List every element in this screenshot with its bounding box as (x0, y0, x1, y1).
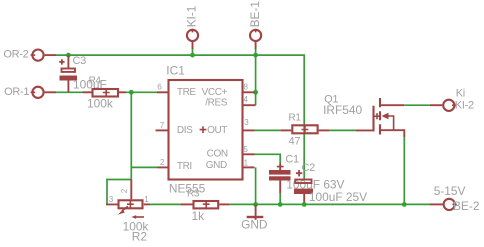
svg-text:R2: R2 (132, 229, 148, 243)
node junction KI-1/top rail (190, 53, 195, 58)
svg-text:IRF540: IRF540 (323, 103, 362, 117)
svg-text:5: 5 (243, 145, 248, 154)
wire Q1 drain to KI-2 (404, 104, 430, 106)
svg-text:R4: R4 (89, 76, 102, 87)
svg-text:3: 3 (244, 118, 249, 127)
wire pin3 to R1 (255, 129, 281, 131)
svg-text:100uF 25V: 100uF 25V (309, 190, 367, 204)
pin 4 /RES stub (243, 104, 256, 106)
svg-text:KI-1: KI-1 (184, 5, 198, 27)
svg-text:R3: R3 (187, 189, 200, 200)
wire pin1 to ground rail (255, 167, 257, 204)
svg-text:DIS: DIS (177, 125, 193, 136)
resistor R4 (83, 89, 127, 97)
node junction C2/rail (302, 202, 307, 207)
svg-text:OR-2: OR-2 (3, 49, 28, 61)
svg-text:OUT: OUT (207, 125, 227, 136)
svg-text:C2: C2 (302, 162, 316, 174)
pad KI-1 (187, 29, 198, 49)
wire top rail net from OR-2 to corner above C2 (56, 55, 304, 178)
svg-text:IC1: IC1 (166, 64, 185, 78)
svg-text:GND: GND (241, 217, 268, 231)
node junction BE-1/top rail (253, 53, 258, 58)
capacitor C2 (294, 170, 313, 204)
svg-text:OR-1: OR-1 (4, 86, 29, 98)
node junction Q1 source/rail (402, 202, 407, 207)
svg-text:BE-1: BE-1 (248, 1, 262, 28)
svg-text:1: 1 (244, 159, 249, 168)
svg-text:KI-2: KI-2 (455, 100, 474, 112)
svg-text:/RES: /RES (205, 97, 227, 108)
wire pin5 to C1 (255, 154, 281, 164)
node junction GND/pin1 (253, 202, 258, 207)
svg-text:Ki: Ki (456, 88, 465, 100)
svg-text:TRE: TRE (177, 87, 197, 98)
wire BE-1 drop to VCC pins (255, 49, 257, 105)
svg-text:4: 4 (244, 95, 249, 104)
pad KI-2 (430, 100, 457, 111)
svg-text:8: 8 (244, 82, 249, 91)
svg-text:3: 3 (109, 195, 114, 204)
wire ground rail (230, 203, 430, 205)
wire Q1 source to ground rail (403, 137, 405, 204)
svg-text:GND: GND (206, 160, 227, 171)
wire C1 to ground rail (279, 193, 281, 204)
svg-text:2: 2 (160, 158, 165, 167)
pad OR-1 (31, 87, 56, 98)
pin 1 GND stub (243, 166, 255, 168)
node junction pin8/VCC (253, 90, 258, 95)
svg-text:1: 1 (144, 195, 149, 204)
pin 6 TRE stub (157, 91, 169, 93)
capacitor C3 (59, 55, 77, 92)
pin 7 DIS stub (156, 129, 169, 131)
trimmer resistor R2 (107, 180, 150, 219)
svg-text:C3: C3 (73, 55, 87, 67)
pad BE-1 (250, 29, 261, 49)
resistor R1 (280, 125, 329, 133)
svg-text:47: 47 (289, 136, 301, 148)
svg-text:7: 7 (160, 121, 165, 130)
node junction C3/top rail (66, 53, 71, 58)
ground symbol (247, 204, 264, 219)
node junction R4/pin6/TRI net (129, 90, 134, 95)
op-amp/IC U1 IC1 NE555 box (169, 80, 243, 180)
svg-text:6: 6 (157, 83, 162, 92)
svg-text:CON: CON (207, 149, 228, 160)
transistor Q2 Q1 IRF540 MOSFET (356, 98, 404, 137)
wire R4 to pin6 (126, 91, 157, 93)
pin 5 CON stub (243, 153, 255, 155)
pad BE-2 (430, 199, 457, 210)
pad OR-2 (31, 50, 56, 61)
wire KI-1 drop (192, 49, 194, 55)
wire TRI net vertical and staircase to R2 (107, 92, 157, 203)
pin 2 TRI stub (157, 166, 169, 168)
wire R2 to R3 (150, 203, 180, 205)
svg-text:TRI: TRI (177, 161, 192, 172)
svg-text:2: 2 (120, 188, 129, 193)
svg-text:C1: C1 (285, 154, 299, 166)
capacitor C1 (269, 163, 291, 193)
pin 3 OUT stub (243, 129, 255, 131)
svg-text:R1: R1 (289, 113, 302, 124)
svg-text:5-15V: 5-15V (434, 184, 466, 198)
wire OR-1 to R4 (56, 91, 83, 93)
svg-text:BE-2: BE-2 (453, 199, 480, 213)
node junction C1/rail (278, 202, 283, 207)
resistor R3 (180, 201, 229, 209)
svg-text:1k: 1k (192, 209, 205, 223)
svg-text:100k: 100k (87, 97, 113, 111)
pin 8 VCC+ stub (243, 91, 255, 93)
wire R1 to Q1 gate (329, 129, 356, 131)
